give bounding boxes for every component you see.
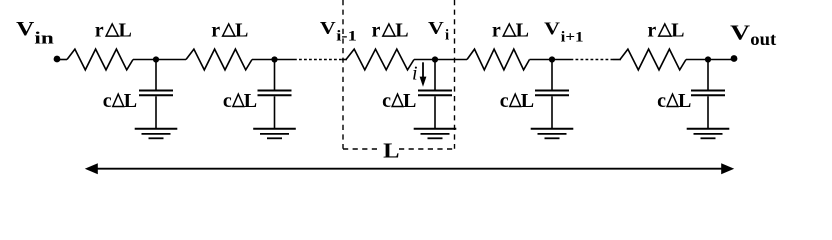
- svg-text:r: r: [647, 20, 656, 42]
- svg-text:in: in: [34, 29, 54, 48]
- svg-text:c: c: [223, 90, 232, 112]
- svg-text:V: V: [730, 21, 751, 45]
- svg-text:c: c: [103, 90, 112, 112]
- svg-text:r: r: [95, 20, 104, 42]
- svg-text:V: V: [320, 18, 336, 38]
- svg-text:i: i: [445, 28, 449, 44]
- svg-text:V: V: [428, 18, 444, 38]
- svg-text:L: L: [516, 20, 529, 42]
- svg-text:L: L: [395, 20, 408, 42]
- svg-text:L: L: [521, 90, 534, 112]
- svg-text:L: L: [678, 90, 691, 112]
- svg-text:i-1: i-1: [336, 29, 357, 45]
- svg-text:L: L: [119, 20, 132, 42]
- svg-text:L: L: [124, 90, 137, 112]
- svg-text:L: L: [235, 20, 248, 42]
- svg-text:L: L: [671, 20, 684, 42]
- svg-text:L: L: [383, 138, 399, 162]
- svg-text:c: c: [500, 90, 509, 112]
- svg-text:c: c: [657, 90, 666, 112]
- svg-text:r: r: [372, 20, 381, 42]
- svg-text:V: V: [544, 19, 560, 39]
- svg-text:r: r: [211, 20, 220, 42]
- svg-text:i+1: i+1: [561, 30, 584, 46]
- svg-text:r: r: [492, 20, 501, 42]
- svg-text:L: L: [244, 90, 257, 112]
- svg-text:V: V: [16, 18, 35, 40]
- svg-text:i: i: [412, 63, 418, 85]
- svg-text:c: c: [382, 90, 391, 112]
- svg-text:L: L: [403, 90, 416, 112]
- svg-text:out: out: [750, 29, 776, 49]
